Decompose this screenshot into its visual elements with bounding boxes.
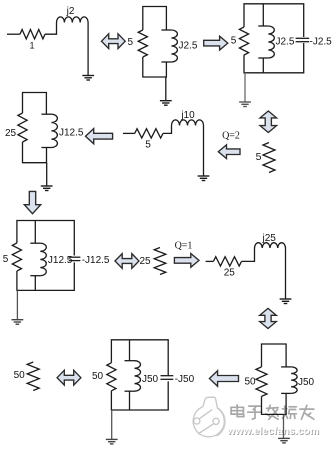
svg-text:5: 5 — [145, 139, 151, 150]
svg-text:J50: J50 — [142, 374, 159, 385]
svg-text:5: 5 — [256, 151, 262, 163]
svg-text:25: 25 — [5, 128, 17, 139]
svg-text:50: 50 — [92, 371, 104, 382]
svg-text:j2: j2 — [66, 6, 75, 17]
svg-text:-J50: -J50 — [175, 374, 195, 385]
svg-text:www.elecfans.com: www.elecfans.com — [226, 426, 319, 437]
svg-text:j25: j25 — [262, 233, 277, 244]
svg-text:25: 25 — [224, 268, 236, 279]
svg-text:J2.5: J2.5 — [179, 41, 198, 52]
svg-text:25: 25 — [139, 256, 151, 267]
svg-text:1: 1 — [29, 41, 34, 51]
svg-text:5: 5 — [231, 36, 237, 47]
svg-text:J50: J50 — [298, 377, 315, 388]
svg-text:50: 50 — [14, 370, 26, 381]
svg-text:Q=1: Q=1 — [175, 241, 193, 252]
svg-text:5: 5 — [3, 254, 9, 265]
svg-text:50: 50 — [244, 377, 256, 388]
svg-text:j10: j10 — [180, 110, 195, 121]
svg-text:Q=2: Q=2 — [222, 131, 240, 142]
svg-text:-J2.5: -J2.5 — [310, 37, 333, 48]
svg-text:-J12.5: -J12.5 — [82, 255, 110, 266]
svg-text:5: 5 — [128, 37, 134, 48]
svg-text:J12.5: J12.5 — [48, 255, 73, 266]
svg-text:J12.5: J12.5 — [59, 128, 84, 139]
svg-text:J2.5: J2.5 — [276, 37, 295, 48]
